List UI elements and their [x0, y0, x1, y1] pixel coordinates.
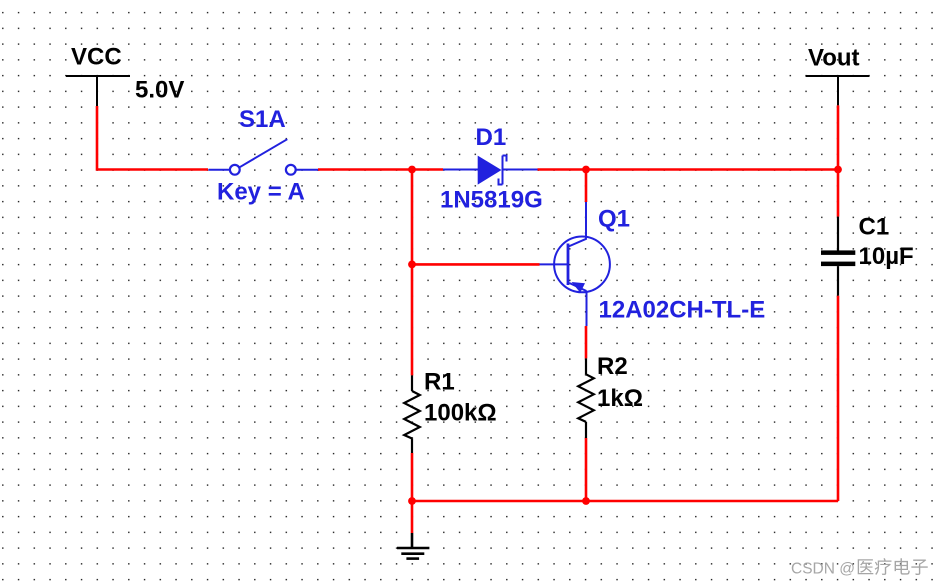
svg-text:VCC: VCC: [71, 44, 122, 71]
power symbol Vout: [806, 76, 870, 105]
svg-text:Key = A: Key = A: [217, 179, 305, 206]
junction node C (Vout): [834, 166, 842, 174]
svg-text:D1: D1: [476, 124, 507, 151]
wire emitter to R2: [585, 326, 588, 358]
svg-text:1kΩ: 1kΩ: [597, 385, 643, 412]
svg-text:5.0V: 5.0V: [135, 77, 184, 104]
wire Vout to node: [837, 105, 840, 169]
wire R2 to rail: [585, 438, 588, 501]
wire bottom rail: [412, 500, 838, 503]
resistor R1: [404, 375, 420, 453]
wire ground drop: [411, 501, 414, 533]
svg-text:Q1: Q1: [598, 206, 630, 233]
svg-text:R2: R2: [597, 353, 628, 380]
wire C1 to bottom rail: [837, 296, 840, 501]
junction node F (R2 bottom): [582, 497, 590, 505]
svg-text:12A02CH-TL-E: 12A02CH-TL-E: [599, 297, 766, 324]
wire collector: [585, 170, 588, 203]
power symbol VCC: [66, 76, 130, 107]
wire base branch: [412, 263, 540, 266]
wire switch to diode: [318, 168, 443, 171]
transistor Q1 (PNP): [540, 202, 610, 326]
junction node D (base): [408, 261, 416, 269]
svg-text:S1A: S1A: [239, 106, 286, 133]
wire VCC stem to rail: [97, 106, 208, 170]
svg-text:100kΩ: 100kΩ: [424, 400, 497, 427]
junction node A (diode anode): [408, 166, 416, 174]
svg-text:CSDN @: CSDN @: [791, 560, 855, 577]
svg-text:Vout: Vout: [808, 45, 860, 72]
svg-text:R1: R1: [424, 369, 455, 396]
junction node E (R1 / ground): [408, 497, 416, 505]
switch S1A: [209, 139, 320, 175]
wire R1 to ground rail: [411, 453, 414, 501]
svg-text:10µF: 10µF: [859, 243, 914, 270]
diode D1 (Schottky): [443, 156, 538, 185]
resistor R2: [578, 358, 594, 438]
junction node B (collector): [582, 166, 590, 174]
ground: [397, 533, 429, 559]
svg-text:1N5819G: 1N5819G: [440, 187, 543, 214]
capacitor C1: [821, 217, 855, 296]
wire node to C1: [837, 170, 840, 217]
wire left vertical (node to R1): [411, 170, 414, 376]
wire diode to Vout node: [538, 168, 839, 171]
svg-text:C1: C1: [859, 214, 890, 241]
